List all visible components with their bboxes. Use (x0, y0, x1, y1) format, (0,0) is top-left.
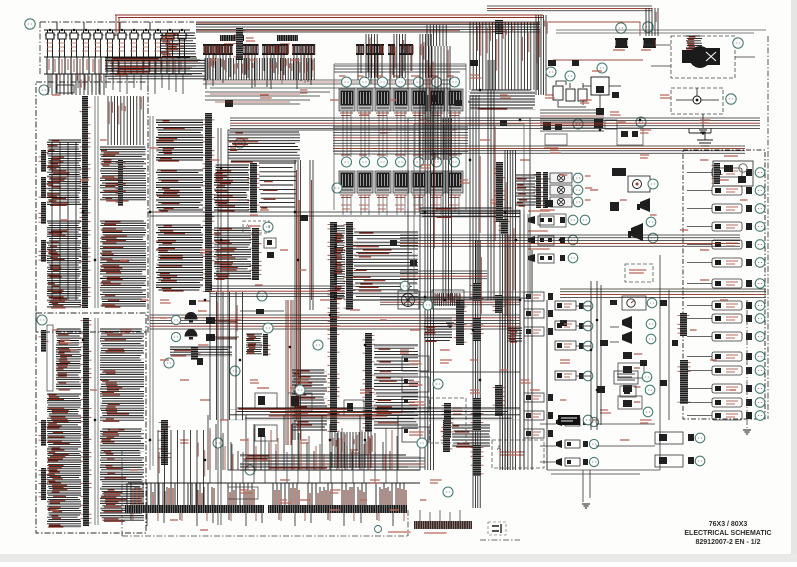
circle label red (150, 147, 159, 149)
right col connector B (678, 360, 691, 404)
T1 label (613, 49, 625, 51)
right device 11 circle (755, 352, 765, 362)
relay label 5 (413, 154, 423, 156)
red label scatter2 (390, 99, 397, 101)
horn 1 (637, 198, 650, 212)
right device 12 circle (755, 366, 765, 376)
right device 5 (712, 240, 742, 249)
bottom dash segment right (480, 539, 520, 541)
red label scatter (300, 440, 309, 443)
connector P3 (116, 160, 126, 206)
red label scatter (180, 440, 189, 443)
red label scatter2 (90, 389, 97, 391)
right device 3 (712, 204, 742, 213)
ECU outer frame (228, 130, 420, 470)
right device 14 (712, 398, 742, 407)
horn 2 (628, 223, 643, 241)
svg-text:76X3 / 80X3: 76X3 / 80X3 (709, 521, 748, 528)
terminal circle TR2 (643, 22, 653, 32)
device B circle (695, 456, 705, 466)
sensor col2 circle 1 (583, 301, 593, 311)
fuse out bundle (105, 58, 205, 79)
page edge shading right (791, 0, 797, 562)
relay K7 (447, 89, 463, 116)
terminal circle R2-2 (360, 157, 370, 167)
sensor col2 plug 4 (579, 373, 585, 379)
red label scatter2 (420, 499, 426, 501)
terminal circle R2-3 (378, 157, 388, 167)
sensor col2 circle 2 (583, 321, 593, 331)
instrument text 3 (409, 402, 424, 405)
circle label red (160, 317, 167, 319)
right module core (724, 165, 733, 172)
svg-text:A: A (497, 446, 501, 452)
terminal circle J10a (423, 300, 433, 310)
terminal circle E1 (257, 291, 267, 301)
trunk solid lines right (520, 210, 547, 470)
top bus lines (196, 22, 540, 32)
main harness run B (430, 146, 745, 153)
connector X4 pins (292, 44, 315, 46)
center verticals C (470, 95, 479, 300)
connector J10 (454, 300, 467, 345)
red label scatter2 (300, 499, 310, 501)
left bundle B (47, 221, 81, 307)
main harness run A (230, 118, 760, 128)
relay K2 (357, 89, 373, 116)
terminal circle R1-2 (360, 77, 370, 87)
relay K5 label (411, 75, 419, 77)
cluster RM2 a (597, 386, 605, 393)
fuse panel bottom bus (44, 73, 192, 75)
ECU bundle C (156, 120, 203, 160)
right device 13 circle (755, 384, 765, 394)
strip B risers (420, 510, 460, 521)
device A plug (688, 434, 694, 441)
ECU left double line (218, 128, 221, 525)
connector strip top B (277, 35, 298, 41)
stub wires left boxes to trunk (576, 303, 619, 376)
right device 11 plug (746, 353, 752, 360)
key label (592, 70, 602, 72)
connector P7 plug (197, 358, 203, 365)
svg-text:82912007-2 EN - 1/2: 82912007-2 EN - 1/2 (696, 539, 761, 546)
ECU top bundle (228, 132, 300, 161)
component m3 (543, 122, 551, 130)
small relay mid (264, 238, 276, 248)
right device 1 (712, 168, 742, 177)
bottom strip risers (127, 483, 404, 506)
circle label red (52, 329, 59, 331)
connector X5 pins (356, 44, 364, 46)
red label scatter2 (210, 159, 220, 161)
switch S1 plug (560, 217, 565, 223)
lower strip label (424, 532, 446, 534)
switch S1 (528, 216, 554, 225)
red label scatter2 (210, 59, 216, 61)
terminal circle R1-7 (450, 77, 460, 87)
device rm1 (623, 366, 632, 373)
connector L pins (643, 38, 656, 40)
terminal circle L1 (39, 85, 49, 95)
relay collector lines row2 (334, 151, 466, 154)
connector X7 pins (388, 44, 395, 46)
heater text (453, 408, 462, 414)
right mid box cluster (540, 214, 566, 227)
bottom mid ground drop (583, 470, 590, 502)
relay K2 label (357, 75, 363, 77)
scatter component (470, 60, 478, 66)
long wires right side down (520, 210, 528, 470)
sensor col2 row 1 (555, 301, 576, 310)
right device 5 plug (746, 241, 752, 248)
right device 2 plug (746, 187, 752, 194)
terminal circle bat1 (546, 67, 556, 77)
drop to connector (427, 25, 446, 46)
dark blob mid (267, 252, 274, 258)
red label scatter (230, 320, 241, 323)
terminal circle R1-6 (432, 77, 442, 87)
red label scatter2 (170, 519, 178, 521)
fan connector pins (435, 293, 459, 306)
connector H1 (234, 28, 246, 60)
instrument text 2 (409, 382, 423, 385)
terminal circle R1-5 (414, 77, 424, 87)
connector Q2a (494, 162, 506, 222)
fuse bus junction dots (49, 29, 51, 31)
lamp H1 label (585, 175, 591, 177)
red label scatter2 (590, 189, 598, 191)
right device 6 (712, 258, 742, 267)
key switch S1 (591, 77, 609, 95)
right device 13 plug (746, 385, 752, 392)
red label scatter2 (200, 529, 208, 531)
harness mid (230, 408, 520, 418)
sensor plug 1 (548, 293, 553, 300)
frame lines left of ECU (150, 116, 153, 470)
top red feeder lines (115, 15, 543, 18)
red label scatter2 (70, 349, 77, 351)
wire right col to sensors (547, 470, 660, 474)
terminal circle H2 (573, 185, 583, 195)
right device 4 (712, 222, 742, 231)
A option box bottom (492, 440, 544, 468)
ECU bundle J3-J4 (334, 226, 345, 298)
component T2 (644, 38, 655, 47)
connector X1 pins (203, 44, 233, 46)
relay K4 (393, 89, 409, 116)
red top-left runs (108, 62, 198, 68)
red label scatter2 (360, 114, 369, 116)
red label scatter2 (260, 459, 268, 461)
right device 14 circle (755, 398, 765, 408)
red label scatter2 (360, 499, 367, 501)
bottom bundle B (300, 458, 425, 467)
relay K6 (429, 89, 445, 116)
bottom sensor 2 circle (589, 439, 598, 448)
terminal circle S2 (568, 235, 578, 245)
J3 drop verticals (332, 432, 371, 468)
switch S2 (528, 236, 554, 245)
bottom terminal strip left (125, 505, 264, 513)
terminal circle F1 (648, 179, 658, 189)
right border dash line (767, 36, 769, 419)
connector RF1 (499, 219, 511, 234)
red label scatter2 (520, 159, 530, 161)
starter motor (682, 46, 720, 68)
left bundle H (100, 429, 144, 520)
band y236 (400, 235, 740, 246)
red label scatter2 (130, 469, 137, 471)
device B inner (659, 457, 667, 464)
connector X6 pins (366, 44, 384, 46)
terminal circle H3 (573, 197, 583, 207)
bottom sensor 3 plug (583, 459, 588, 465)
terminal circle S1 (568, 215, 578, 225)
terminal circle acc (573, 119, 583, 129)
terminal circle bell1 (171, 315, 180, 324)
red label scatter (600, 410, 611, 413)
fuse panel red wires (49, 59, 181, 74)
left bundle A (47, 140, 81, 204)
red trunk pair (288, 300, 291, 445)
red label scatter2 (730, 389, 736, 391)
battery wires (556, 81, 586, 107)
sensor plug 2 (548, 310, 553, 317)
device rm2 (623, 385, 632, 392)
terminal circle bell2 (171, 332, 180, 341)
fuse panel frame (40, 21, 194, 23)
harness run C (380, 297, 520, 305)
left block2 inner verticals (95, 318, 98, 525)
right device 3 circle (755, 204, 765, 214)
red label scatter2 (280, 479, 290, 481)
terminal circle h4 (646, 334, 656, 344)
heater box (430, 398, 466, 443)
terminal circle R1-3 (378, 77, 388, 87)
terminal circle R1-1 (342, 77, 352, 87)
mid bundle (170, 347, 232, 355)
ECU bundle A (214, 165, 249, 210)
connector LM1 (534, 172, 544, 208)
connector P5b (39, 420, 49, 446)
scatter component (610, 300, 617, 305)
connector T (493, 20, 506, 34)
scatter component (600, 340, 608, 346)
red label scatter2 (720, 179, 729, 181)
red label scatter (545, 95, 555, 98)
terminal circle M2 (263, 323, 273, 333)
right device 6 circle (755, 258, 765, 268)
J1 down verticals (210, 292, 243, 420)
relay acc (594, 119, 603, 128)
right device 2 circle (755, 186, 765, 196)
red label scatter2 (700, 159, 708, 161)
relay K5 (411, 89, 427, 116)
red label scatter (500, 95, 511, 98)
lamp H3 (550, 197, 572, 207)
junction dots (220, 167, 222, 169)
red label scatter (560, 360, 570, 363)
terminal circle BC4 (295, 385, 305, 395)
right device 1 plug (746, 169, 752, 176)
title text (684, 521, 771, 546)
instrument dot 3 (404, 399, 408, 403)
ground mid (582, 504, 590, 508)
trunk connector B (471, 318, 484, 341)
option box text (248, 225, 261, 227)
right device 15 circle (755, 411, 765, 421)
connector X3 pins (262, 44, 288, 46)
right device 11 (712, 352, 742, 361)
bottom sensor 1 plug (583, 419, 588, 425)
red label scatter2 (700, 279, 709, 281)
red label scatter (300, 90, 308, 93)
bell horn 1 (185, 312, 198, 323)
cluster label (540, 209, 555, 211)
instrument box 2 (402, 377, 429, 392)
horn 3 (622, 316, 632, 329)
terminal circle BC3 (313, 340, 323, 350)
instrument dot 4 (404, 429, 408, 433)
connector J4 (344, 222, 356, 310)
red label scatter (440, 360, 452, 363)
scatter component (672, 340, 678, 346)
terminal circle fan (400, 281, 410, 291)
mid top component (189, 300, 196, 305)
relay K1 label (339, 75, 346, 77)
right mid boxes (618, 363, 644, 378)
red label scatter2 (260, 209, 269, 211)
red label scatter2 (700, 249, 709, 251)
connector heater (442, 403, 454, 438)
connector block stripes (246, 334, 262, 354)
terminal circle CB (25, 19, 35, 29)
gray feeder lines top right (556, 30, 766, 33)
strip B label (280, 43, 290, 45)
bottom right device A (655, 432, 683, 444)
right device 15 (712, 411, 742, 420)
drops below fuse panel (50, 74, 183, 94)
component h3 (610, 202, 619, 211)
ECU sparse lines right (259, 163, 296, 207)
red label scatter2 (160, 359, 169, 361)
band y286 (210, 286, 345, 296)
red label scatter2 (390, 509, 399, 511)
lamp H2 label (585, 187, 592, 189)
relay K11 (393, 171, 409, 198)
right device 13 (712, 384, 742, 393)
right col connector A (678, 313, 690, 336)
cluster label (544, 147, 559, 149)
right ECU verticals (488, 60, 494, 300)
terminal circle gauge (647, 298, 657, 308)
scatter component (596, 108, 604, 115)
connector LM2 (541, 172, 551, 208)
relay row 2 red labels below (341, 205, 459, 209)
right device 4 plug (746, 223, 752, 230)
instrument box 1 (402, 356, 429, 371)
right device 15 plug (746, 412, 752, 419)
trunk pair mid-right (591, 281, 601, 430)
right device 8 circle (755, 301, 765, 311)
relay K10 (375, 171, 391, 198)
terminal circle M1 (164, 358, 174, 368)
relay label 1 (341, 154, 350, 156)
red wires cluster (160, 33, 196, 56)
red label scatter (640, 420, 652, 423)
mid top label (198, 300, 210, 302)
sensor row 3 (524, 327, 544, 336)
red feeder to starter (548, 22, 643, 60)
battery feed drop (536, 15, 546, 95)
acc label (618, 121, 626, 123)
red label scatter2 (60, 219, 68, 221)
strip right label (388, 531, 411, 533)
left block1 header box (57, 85, 74, 93)
mid component cluster (617, 128, 643, 145)
top bus red lines (196, 23, 540, 31)
terminal circle RM (580, 215, 590, 225)
riser comb dense (208, 415, 398, 470)
left top verticals (108, 96, 143, 145)
device rm2 label (634, 386, 641, 388)
black box circle (583, 415, 593, 425)
red label scatter (200, 250, 212, 253)
gauge module (622, 296, 646, 310)
red label scatter (60, 340, 72, 343)
drops below pin clusters (206, 55, 411, 90)
circle label red (155, 211, 161, 213)
connector MB (261, 334, 271, 356)
red label scatter2 (280, 249, 288, 251)
scatter component (660, 300, 667, 306)
instrument dot 1 (404, 358, 408, 362)
ground G-alt (699, 130, 707, 134)
red label scatter2 (290, 59, 300, 61)
relay K14 (447, 171, 463, 198)
terminal circle M4 (213, 438, 223, 448)
center trunk vertical pair 2 (310, 160, 313, 310)
red label scatter (470, 390, 481, 393)
ECU bundle E (156, 225, 203, 290)
lamp H1 (550, 173, 572, 183)
solenoid s3 (258, 428, 265, 437)
terminal circle R1-4 (396, 77, 406, 87)
bottom sensor 2 (556, 440, 580, 448)
red label scatter2 (350, 309, 360, 311)
relay K8 (339, 171, 355, 198)
red label scatter2 (240, 439, 248, 441)
right device 10 circle (755, 332, 765, 342)
trunk verticals (473, 240, 480, 508)
strip circle (375, 526, 382, 533)
junction bundle (424, 318, 452, 340)
fuse panel bus top (44, 29, 190, 31)
scatter component (545, 200, 553, 207)
right device 6 plug (746, 259, 752, 266)
instrument box 4 (402, 427, 429, 442)
fuse panel mid bus (44, 56, 190, 58)
device A circle (695, 433, 705, 443)
scatter component (225, 100, 233, 107)
relay row 1 drops (343, 111, 459, 157)
frame around relay region (334, 64, 466, 210)
bus drop C (420, 34, 431, 78)
bus drop verticals (470, 22, 537, 90)
terminal circle S3 (568, 253, 578, 263)
bottom-left verticals (158, 430, 204, 505)
